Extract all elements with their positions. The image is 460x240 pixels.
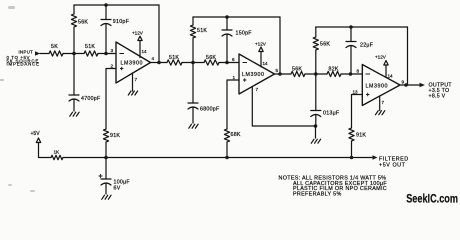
svg-text:LM3900: LM3900 xyxy=(366,83,388,89)
node U1 output junction dot xyxy=(157,61,161,65)
capacitor 100uF electrolytic xyxy=(101,179,111,185)
svg-text:7: 7 xyxy=(382,100,385,105)
svg-text:14: 14 xyxy=(142,49,148,54)
svg-text:56K: 56K xyxy=(320,42,330,48)
wire feedback drop to U2 output xyxy=(279,17,281,74)
wire 56K to node M xyxy=(305,73,327,75)
svg-text:7: 7 xyxy=(256,87,259,92)
wire pin 14 of U2 to +12V xyxy=(260,52,262,67)
wire pin 2 of U1 xyxy=(106,69,116,130)
node rail/91K-1 junction dot xyxy=(104,156,108,160)
wire 51K to node C xyxy=(182,62,204,64)
resistor 51K (feedback, stage 2) xyxy=(190,25,195,38)
ground (U3 pin 7) xyxy=(376,111,385,115)
U1 minus sign xyxy=(120,53,125,55)
ground (4700pF) xyxy=(70,112,79,116)
svg-text:+5V: +5V xyxy=(31,131,41,137)
svg-text:56K: 56K xyxy=(78,20,88,26)
wire 910pF bottom lead to node B xyxy=(105,24,107,54)
wire 82K to pin 8 of U3 xyxy=(341,73,362,75)
node C junction dot xyxy=(191,61,195,65)
wire top rail stage 1 xyxy=(74,4,159,6)
+12V arrow (U1) xyxy=(138,36,142,40)
resistor 56K (interstage 1-2) xyxy=(204,60,219,65)
svg-text:PREFERABLY 5%: PREFERABLY 5% xyxy=(293,192,342,198)
svg-text:LM3900: LM3900 xyxy=(242,72,264,78)
svg-text:51K: 51K xyxy=(85,44,95,50)
wire U3 output xyxy=(400,84,420,86)
capacitor 910pF xyxy=(101,20,111,26)
wire feedback drop to U3 output xyxy=(407,27,409,85)
wire node A up to 56K xyxy=(73,27,75,54)
svg-text:+5V OUT: +5V OUT xyxy=(379,163,406,169)
wire 56K to pin 6 of U2 xyxy=(219,62,239,64)
wire 91K to +5V rail xyxy=(351,141,353,158)
wire 68K to +5V rail xyxy=(226,142,228,158)
wire node A down to 4700pF xyxy=(73,54,75,96)
wire 56K to top rail 1 xyxy=(73,5,75,14)
node rail/68K junction dot xyxy=(225,156,229,160)
wire top rail stage 2 xyxy=(193,16,280,18)
node N junction dot xyxy=(349,72,353,76)
wire 22uF bottom lead to node N xyxy=(350,46,352,75)
svg-text:FILTERED: FILTERED xyxy=(379,156,409,162)
resistor 91K (stage 1 bias) xyxy=(103,129,108,142)
wire 100uF to ground xyxy=(105,183,107,194)
capacitor 4700pF xyxy=(69,95,79,101)
+12V arrow (U2) xyxy=(259,47,263,52)
svg-text:3: 3 xyxy=(111,48,114,53)
svg-text:6800pF: 6800pF xyxy=(200,107,220,113)
wire top rail stage 3 xyxy=(316,26,408,28)
wire 51K to top rail 2 xyxy=(192,17,194,25)
ground (6800pF) xyxy=(189,124,198,128)
wire pin 14 of U1 to +12V xyxy=(139,41,141,58)
svg-text:51K: 51K xyxy=(169,55,179,61)
svg-text:1: 1 xyxy=(233,75,236,80)
wire U1 output xyxy=(151,62,168,64)
resistor 91K (stage 3 bias) xyxy=(349,128,354,141)
svg-text:14: 14 xyxy=(263,61,269,66)
resistor 56K (interstage 2-3) xyxy=(291,71,305,76)
wire junction to ground xyxy=(315,126,317,138)
node D junction dot xyxy=(225,61,229,65)
resistor 51K (series input) xyxy=(84,51,98,56)
svg-text:22μF: 22μF xyxy=(360,43,374,49)
resistor 1K (+5V rail) xyxy=(51,155,63,159)
U2 minus sign xyxy=(243,62,248,64)
wire feedback drop to U1 output xyxy=(158,5,160,63)
+5V supply arrow xyxy=(36,138,40,143)
U3 minus sign xyxy=(366,73,371,75)
wire 91K to +5V rail xyxy=(105,142,107,158)
svg-text:1K: 1K xyxy=(54,150,61,155)
wire 22uF top lead xyxy=(350,27,352,42)
node rail/91K-3 junction dot xyxy=(350,156,354,160)
wire U2 output xyxy=(275,73,292,75)
wire rail down to 100uF xyxy=(105,158,107,180)
node M junction dot xyxy=(314,72,318,76)
ground (U1 pin 7) xyxy=(128,91,137,95)
capacitor 013uF xyxy=(311,111,321,117)
capacitor 6800pF xyxy=(188,103,198,109)
svg-text:4: 4 xyxy=(152,56,155,61)
wire node M up through 56K vertical xyxy=(315,50,317,74)
output arrow xyxy=(420,83,426,87)
wire 56K to top rail 3 xyxy=(315,27,317,37)
wire 910pF top lead xyxy=(105,5,107,20)
svg-text:910pF: 910pF xyxy=(113,19,130,25)
op-amp U2 LM3900 triangle xyxy=(239,54,275,94)
svg-text:8: 8 xyxy=(357,69,360,74)
svg-text:013μF: 013μF xyxy=(323,111,340,117)
svg-text:51K: 51K xyxy=(197,28,207,34)
resistor 5K (input) xyxy=(49,51,63,56)
svg-text:6V: 6V xyxy=(114,186,121,192)
wire 150pF bottom lead to node D xyxy=(226,34,228,63)
node A junction dot xyxy=(72,52,76,56)
op-amp U3 LM3900 triangle xyxy=(362,65,400,106)
wire pin 7 of U1 xyxy=(132,73,134,91)
+12V arrow (U3) xyxy=(384,61,388,66)
svg-text:4700pF: 4700pF xyxy=(81,96,101,102)
wire pin 7 of U3 xyxy=(379,96,381,111)
svg-text:56K: 56K xyxy=(206,55,216,61)
resistor 56K (feedback, stage 3) xyxy=(313,37,318,50)
svg-text:5K: 5K xyxy=(51,44,58,50)
wire pin 7 of U2 to ground run xyxy=(252,87,315,126)
svg-text:9: 9 xyxy=(402,80,405,85)
capacitor 22uF xyxy=(346,42,356,48)
input arrow xyxy=(35,51,40,55)
U2 plus sign xyxy=(243,78,246,81)
wire pin 13 of U3 down through 91K xyxy=(352,95,363,129)
wire pin 14 of U3 to +12V xyxy=(385,65,387,78)
svg-text:2: 2 xyxy=(111,64,114,69)
svg-text:SeekIC.com: SeekIC.com xyxy=(406,192,458,206)
svg-text:91K: 91K xyxy=(356,133,366,139)
ground (stage 2/3 common) xyxy=(311,139,320,143)
svg-text:6: 6 xyxy=(232,57,235,62)
svg-text:+12V: +12V xyxy=(132,30,144,35)
svg-text:150pF: 150pF xyxy=(236,31,253,37)
node top of 910pF junction dot xyxy=(104,3,108,7)
svg-text:+12V: +12V xyxy=(255,42,267,47)
capacitor 150pF xyxy=(222,30,232,36)
node top of 22uF junction dot xyxy=(349,25,353,29)
wire +5V rail run xyxy=(63,157,373,159)
U3 plus sign xyxy=(366,93,369,96)
wire 6800pF to ground xyxy=(192,107,194,123)
wire 013uF bottom lead xyxy=(315,115,317,127)
node B junction dot xyxy=(104,52,108,56)
resistor 68K (stage 2 bias) xyxy=(224,129,229,142)
svg-text:+8.5 V: +8.5 V xyxy=(429,94,446,100)
node top of 150pF junction dot xyxy=(225,15,229,19)
wire 4700pF to ground xyxy=(73,99,75,111)
wire node C up to 51K vertical xyxy=(192,38,194,63)
wire 150pF top lead xyxy=(226,17,228,30)
resistor 51K (interstage 1-2) xyxy=(167,60,182,65)
U1 plus sign xyxy=(120,67,123,70)
ground (100uF) xyxy=(102,195,111,199)
svg-text:IMPEDANCE: IMPEDANCE xyxy=(7,62,40,67)
filtered output arrow xyxy=(373,155,378,159)
svg-text:91K: 91K xyxy=(110,133,120,139)
wire node C down to 6800pF xyxy=(192,63,194,104)
wire 51K to pin 3 of U1 xyxy=(98,53,116,55)
svg-text:14: 14 xyxy=(388,74,394,79)
svg-text:+12V: +12V xyxy=(375,55,387,60)
svg-text:7: 7 xyxy=(135,77,138,82)
svg-text:13: 13 xyxy=(353,90,359,95)
wire +5V drop to rail xyxy=(39,143,52,158)
node 013uF bottom junction dot xyxy=(314,124,318,128)
svg-text:82K: 82K xyxy=(329,67,339,73)
wire node M down to 013uF xyxy=(315,74,317,111)
svg-text:68K: 68K xyxy=(231,132,241,138)
wire input lead xyxy=(40,53,49,55)
resistor 82K (interstage 2-3) xyxy=(327,71,341,76)
100uF plus polarity xyxy=(99,174,103,178)
node U2 output junction dot xyxy=(278,72,282,76)
wire 5K to node A xyxy=(63,53,84,55)
node U3 output junction dot xyxy=(404,83,408,87)
svg-text:56K: 56K xyxy=(292,67,302,73)
op-amp U1 LM3900 triangle xyxy=(116,42,151,83)
svg-text:LM3900: LM3900 xyxy=(121,60,143,66)
svg-text:5: 5 xyxy=(276,68,279,73)
resistor 56K (feedback, stage 1) xyxy=(71,14,76,27)
wire pin 1 of U2 down through 68K xyxy=(227,80,239,129)
